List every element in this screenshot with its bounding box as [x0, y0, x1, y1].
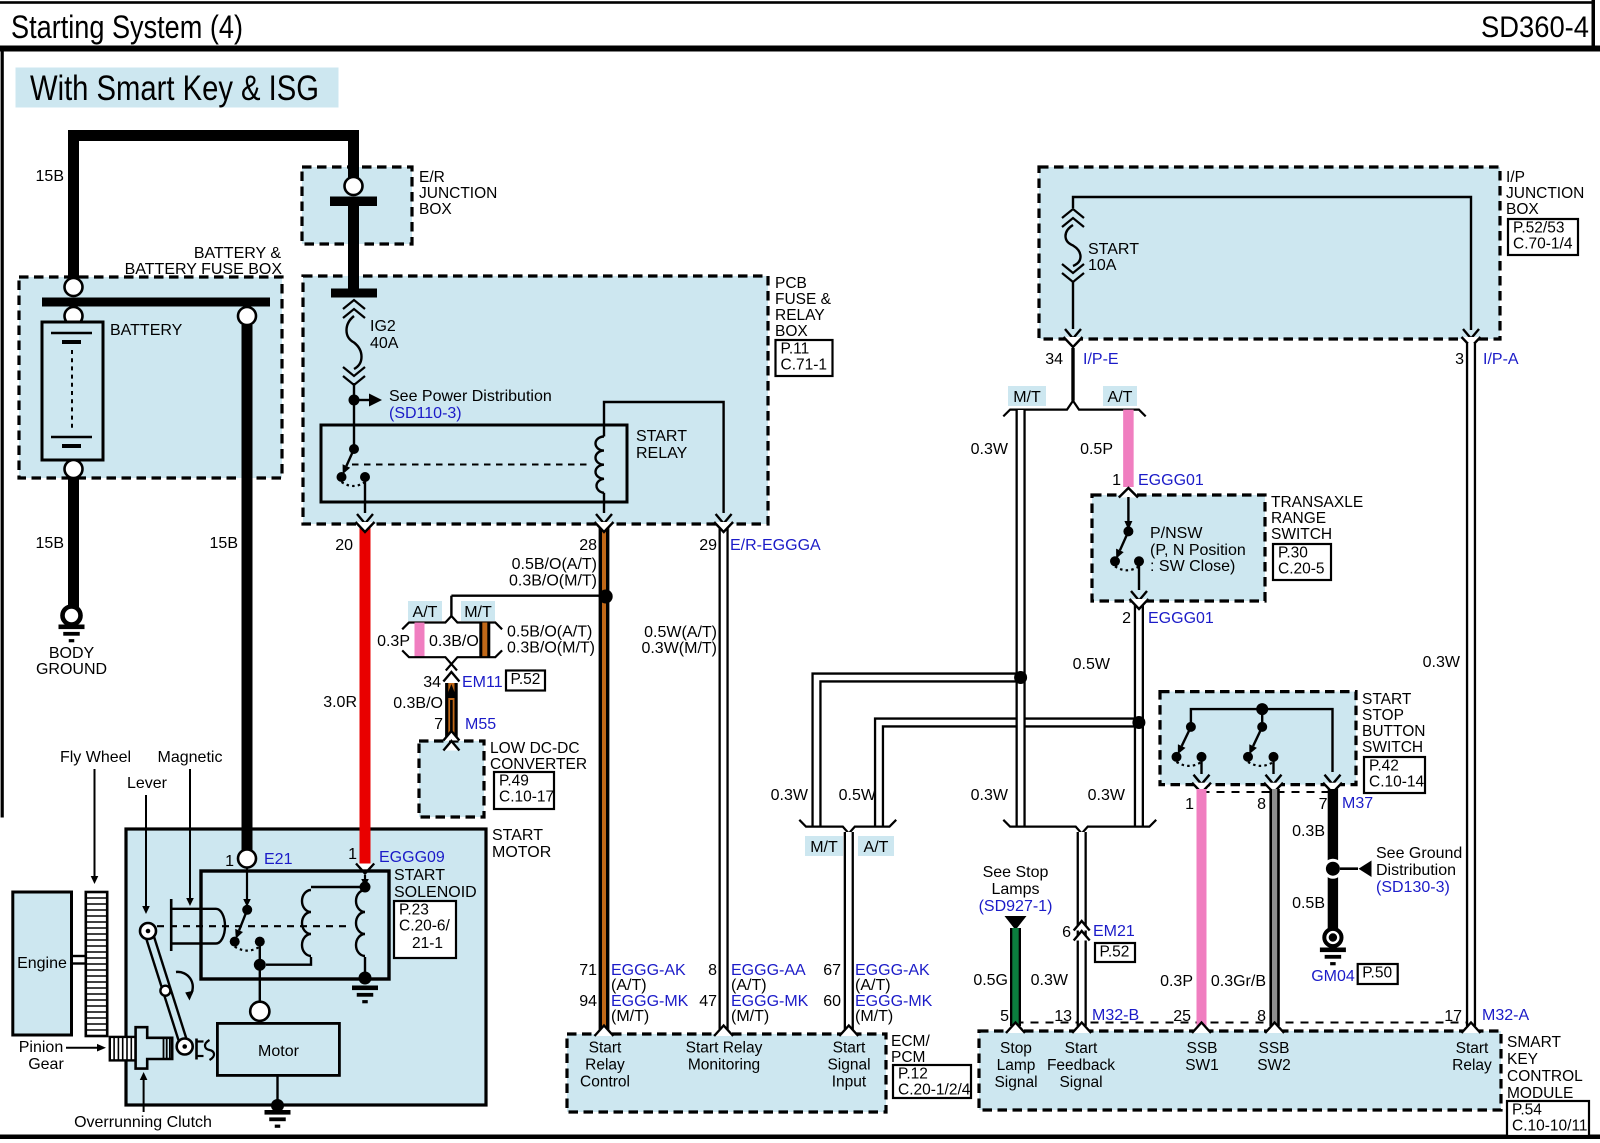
I/P junction box	[1039, 167, 1500, 339]
svg-text:P.42: P.42	[1369, 758, 1399, 775]
title underline	[0, 46, 1600, 52]
svg-text:Signal: Signal	[994, 1074, 1037, 1091]
svg-text:28: 28	[579, 537, 597, 554]
wire 0.3W start feedback to smart key	[1077, 832, 1087, 1026]
svg-text:3: 3	[1455, 351, 1464, 368]
svg-text:E/R-EGGGA: E/R-EGGGA	[730, 537, 821, 554]
svg-text:LOW DC-DC: LOW DC-DC	[490, 740, 580, 757]
svg-text:C.20-1/2/4: C.20-1/2/4	[898, 1082, 971, 1099]
svg-text:0.3W: 0.3W	[1088, 787, 1126, 804]
svg-text:1: 1	[1185, 796, 1194, 813]
svg-text:P.54: P.54	[1512, 1102, 1542, 1119]
wire 0.3B/O EM11 to M55	[445, 683, 458, 737]
svg-text:29: 29	[699, 537, 717, 554]
transaxle switch output	[1138, 561, 1140, 590]
svg-text:START: START	[1362, 691, 1412, 708]
SSB switch 2	[1257, 722, 1267, 732]
svg-text:SWITCH: SWITCH	[1271, 526, 1332, 543]
SSB internal bus wire	[1191, 709, 1333, 772]
svg-text:C.71-1: C.71-1	[781, 357, 828, 374]
start stop button switch box	[1160, 692, 1356, 785]
svg-text:(M/T): (M/T)	[611, 1008, 649, 1025]
svg-text:RELAY: RELAY	[636, 445, 688, 462]
svg-text:BOX: BOX	[775, 323, 808, 340]
connector EM11	[443, 672, 459, 682]
battery fuse box right connector	[238, 307, 256, 325]
solenoid pull-in coil	[302, 890, 311, 956]
svg-text:C.70-1/4: C.70-1/4	[1513, 236, 1573, 253]
svg-text:A/T: A/T	[864, 839, 889, 856]
svg-text:M/T: M/T	[810, 839, 838, 856]
start motor box	[126, 829, 486, 1105]
svg-text:1: 1	[348, 846, 357, 863]
svg-text:EM11: EM11	[462, 674, 503, 691]
svg-text:0.3Gr/B: 0.3Gr/B	[1211, 973, 1266, 990]
page top border line	[0, 1, 1594, 4]
wire 15B battery to body ground	[68, 478, 79, 607]
body ground G	[63, 607, 81, 625]
svg-text:P.12: P.12	[898, 1066, 928, 1083]
svg-text:0.5G: 0.5G	[973, 972, 1008, 989]
solenoid plunger dashed line	[157, 925, 352, 927]
svg-text:(P, N Position: (P, N Position	[1150, 542, 1246, 559]
svg-text:P/NSW: P/NSW	[1150, 525, 1203, 542]
coil ground wire	[364, 957, 366, 973]
svg-text:RELAY: RELAY	[775, 307, 825, 324]
svg-text:C.10-17: C.10-17	[499, 789, 554, 806]
svg-text:P.50: P.50	[1362, 965, 1392, 982]
svg-text:0.3B/O: 0.3B/O	[429, 633, 479, 650]
label A/T	[408, 601, 442, 621]
svg-text:0.5B/O(A/T): 0.5B/O(A/T)	[512, 556, 597, 573]
svg-text:M37: M37	[1342, 795, 1373, 812]
svg-text:CONVERTER: CONVERTER	[490, 756, 587, 773]
pinion gear	[110, 1037, 136, 1061]
battery B1	[42, 322, 103, 460]
svg-text:0.5B/O(A/T): 0.5B/O(A/T)	[507, 624, 592, 641]
svg-text:(SD927-1): (SD927-1)	[979, 898, 1053, 915]
svg-text:Signal: Signal	[827, 1057, 870, 1074]
svg-text:Start Relay: Start Relay	[686, 1040, 763, 1057]
svg-text:A/T: A/T	[1108, 389, 1133, 406]
start relay coil	[596, 437, 605, 493]
solenoid switch output node	[259, 942, 261, 965]
svg-text:E21: E21	[264, 851, 293, 868]
svg-text:GM04: GM04	[1311, 968, 1355, 985]
lever	[152, 930, 189, 1046]
svg-text:0.3P: 0.3P	[1160, 973, 1193, 990]
SSB switch1 output	[1200, 757, 1202, 774]
svg-text:SD360-4: SD360-4	[1481, 11, 1589, 44]
svg-text:Magnetic: Magnetic	[158, 749, 223, 766]
svg-text:PCM: PCM	[891, 1049, 925, 1066]
svg-text:Relay: Relay	[1452, 1057, 1492, 1074]
svg-text:0.3W: 0.3W	[1423, 654, 1461, 671]
svg-text:5: 5	[1000, 1008, 1009, 1025]
lever to motor linkage	[195, 1039, 198, 1060]
svg-text:0.3B/O(M/T): 0.3B/O(M/T)	[509, 573, 597, 590]
wire 0.3Gr/B SSB SW2	[1269, 789, 1279, 1026]
svg-text:71: 71	[579, 962, 597, 979]
svg-text:SSB: SSB	[1258, 1040, 1289, 1057]
svg-text:(M/T): (M/T)	[855, 1008, 893, 1025]
engine	[13, 892, 72, 1035]
SSB ground output pin7	[1325, 775, 1341, 785]
label M/T	[461, 601, 495, 621]
svg-text:(M/T): (M/T)	[731, 1008, 769, 1025]
svg-text:START: START	[636, 428, 687, 445]
wire 15B battery to E/R junction box	[74, 136, 354, 283]
start relay switch	[349, 444, 359, 454]
svg-text:Start: Start	[1456, 1040, 1489, 1057]
svg-text:Lamps: Lamps	[991, 881, 1039, 898]
svg-text:0.3W: 0.3W	[971, 787, 1009, 804]
svg-text:EM21: EM21	[1093, 923, 1135, 940]
svg-text:P.52: P.52	[511, 671, 541, 688]
svg-text:Fly Wheel: Fly Wheel	[60, 749, 131, 766]
svg-text:Pinion: Pinion	[19, 1039, 63, 1056]
svg-text:Gear: Gear	[28, 1056, 64, 1073]
svg-text:25: 25	[1173, 1008, 1191, 1025]
EM11 merge bracket	[402, 650, 457, 670]
svg-text:0.3W: 0.3W	[971, 441, 1009, 458]
svg-text:EGGG09: EGGG09	[379, 849, 445, 866]
svg-text:6: 6	[1062, 924, 1071, 941]
E/R junction bus bar	[330, 197, 377, 207]
svg-text:KEY: KEY	[1507, 1051, 1538, 1068]
wire 0.3P SSB SW1	[1197, 789, 1207, 1026]
merge M/T A/T start signal	[799, 820, 849, 834]
I/P junction internal wire	[1073, 197, 1471, 330]
svg-text:See Stop: See Stop	[983, 864, 1049, 881]
svg-text:Monitoring: Monitoring	[688, 1057, 760, 1074]
svg-text:Relay: Relay	[585, 1057, 625, 1074]
wire 0.5W transaxle to feedback merge	[1134, 603, 1144, 827]
svg-text:0.5W: 0.5W	[839, 787, 877, 804]
engine shaft	[72, 955, 86, 957]
svg-text:START: START	[394, 867, 445, 884]
ground GM04	[1324, 929, 1341, 946]
wire 0.3W junction branch to M/T merge	[817, 678, 1021, 827]
wire I/P-E	[1071, 348, 1074, 401]
svg-text:P.30: P.30	[1278, 545, 1308, 562]
connector M37 dashed line	[1202, 791, 1334, 793]
wire 0.3W I/P-E M/T branch	[1015, 410, 1025, 827]
motor M	[259, 970, 261, 1002]
node EM11 branch junction	[451, 595, 601, 597]
svg-text:0.3B/O(M/T): 0.3B/O(M/T)	[507, 640, 595, 657]
svg-text:SSB: SSB	[1186, 1040, 1217, 1057]
node power distribution junction	[349, 395, 360, 406]
smart key entries	[1006, 1023, 1025, 1034]
svg-text:Engine: Engine	[17, 955, 67, 972]
svg-text:0.5B: 0.5B	[1292, 895, 1325, 912]
PCB bus bar	[331, 289, 377, 298]
ECM entry start signal input	[839, 1026, 858, 1037]
svg-text:10A: 10A	[1088, 257, 1117, 274]
flywheel	[86, 892, 107, 1036]
fuse START 10A	[1062, 209, 1084, 218]
svg-text:Motor: Motor	[258, 1043, 300, 1060]
battery bus bar	[42, 298, 270, 307]
svg-text:94: 94	[579, 993, 597, 1010]
svg-text:: SW Close): : SW Close)	[1150, 558, 1235, 575]
page right title border	[1592, 0, 1596, 50]
svg-text:M32-B: M32-B	[1092, 1007, 1139, 1024]
SSB switch 1	[1186, 722, 1196, 732]
battery positive connector	[65, 278, 83, 296]
wire 0.3W I/P-A to smart key	[1466, 343, 1476, 1026]
svg-text:0.3W: 0.3W	[1031, 972, 1069, 989]
wire start relay switch output pin 20	[364, 477, 366, 513]
svg-text:Distribution: Distribution	[1376, 862, 1456, 879]
PCB fuse and relay box	[303, 276, 768, 524]
svg-text:E/R: E/R	[419, 169, 445, 186]
svg-text:15B: 15B	[36, 168, 64, 185]
svg-text:SMART: SMART	[1507, 1034, 1562, 1051]
lever motion arrow	[176, 972, 193, 994]
svg-text:(A/T): (A/T)	[611, 977, 647, 994]
wire start relay coil to E/R-EGGGA	[604, 402, 724, 513]
svg-text:RANGE: RANGE	[1271, 510, 1326, 527]
wire 0.3B 0.5B to ground GM04	[1328, 789, 1338, 929]
svg-text:SW2: SW2	[1257, 1057, 1291, 1074]
svg-text:(A/T): (A/T)	[855, 977, 891, 994]
svg-text:P.49: P.49	[499, 773, 529, 790]
svg-text:Start: Start	[1065, 1040, 1098, 1057]
svg-text:7: 7	[434, 716, 443, 733]
svg-text:ECM/: ECM/	[891, 1033, 930, 1050]
merge feedback wires	[1003, 820, 1081, 834]
svg-text:(SD130-3): (SD130-3)	[1376, 879, 1450, 896]
motor ground wire	[276, 1076, 278, 1102]
svg-text:21-1: 21-1	[412, 935, 443, 952]
svg-text:47: 47	[699, 993, 717, 1010]
svg-text:Lamp: Lamp	[997, 1057, 1036, 1074]
svg-text:BATTERY &: BATTERY &	[194, 245, 281, 262]
svg-text:M32-A: M32-A	[1482, 1007, 1529, 1024]
solenoid hold coil	[356, 890, 365, 956]
svg-text:13: 13	[1054, 1008, 1072, 1025]
svg-text:1: 1	[1112, 472, 1121, 489]
wire 3.0R start relay to start motor	[360, 527, 371, 869]
svg-text:START: START	[1088, 241, 1139, 258]
svg-text:Feedback: Feedback	[1047, 1057, 1115, 1074]
svg-text:EGGG01: EGGG01	[1148, 610, 1214, 627]
svg-text:0.3W(M/T): 0.3W(M/T)	[641, 640, 717, 657]
start relay linkage dashed line	[352, 464, 592, 466]
svg-text:GROUND: GROUND	[36, 661, 107, 678]
svg-text:20: 20	[335, 537, 353, 554]
svg-text:I/P: I/P	[1506, 169, 1525, 186]
svg-text:0.5W(A/T): 0.5W(A/T)	[644, 624, 717, 641]
svg-text:C.10-10/11: C.10-10/11	[1512, 1118, 1588, 1135]
svg-text:0.3W: 0.3W	[771, 787, 809, 804]
wire E/R junction to PCB box	[348, 206, 359, 292]
E/R junction connector	[345, 177, 363, 195]
page left border	[1, 46, 4, 818]
svg-text:Stop: Stop	[1000, 1040, 1032, 1057]
svg-text:M/T: M/T	[464, 604, 492, 621]
wire start signal input to ECM	[844, 832, 854, 1030]
svg-text:MOTOR: MOTOR	[492, 844, 551, 861]
exit pin 29	[716, 514, 732, 524]
svg-text:3.0R: 3.0R	[323, 694, 357, 711]
transaxle range switch box	[1092, 495, 1265, 601]
svg-text:2: 2	[1122, 610, 1131, 627]
smart key control module box	[979, 1031, 1501, 1110]
svg-text:8: 8	[1257, 1008, 1266, 1025]
svg-text:34: 34	[1045, 351, 1063, 368]
battery and battery fuse box	[19, 277, 282, 478]
fuse IG2 40A	[343, 300, 365, 309]
label M/T	[1008, 386, 1046, 406]
overrunning clutch	[136, 1027, 173, 1068]
svg-text:8: 8	[708, 962, 717, 979]
E/R junction box	[302, 167, 412, 244]
svg-text:C.20-5: C.20-5	[1278, 561, 1325, 578]
wire 0.3B/O M/T branch	[479, 623, 490, 658]
svg-text:1: 1	[225, 853, 234, 870]
solenoid switch	[242, 905, 252, 915]
svg-text:0.3B: 0.3B	[1292, 823, 1325, 840]
svg-text:Signal: Signal	[1059, 1074, 1102, 1091]
svg-text:BODY: BODY	[49, 645, 95, 662]
see power distribution reference	[354, 399, 369, 401]
svg-text:Overrunning Clutch: Overrunning Clutch	[74, 1114, 212, 1131]
svg-text:M55: M55	[465, 716, 496, 733]
exit pin 3	[1463, 329, 1479, 339]
svg-text:C.20-6/: C.20-6/	[399, 918, 451, 935]
svg-text:0.3P: 0.3P	[377, 633, 410, 650]
solenoid feed node	[360, 882, 371, 893]
see ground distribution reference	[1340, 867, 1358, 870]
svg-text:Lever: Lever	[127, 775, 168, 792]
transaxle entry connector pin 1	[1119, 488, 1138, 498]
exit pin 20	[357, 514, 373, 524]
connector M32 dashed line	[1016, 1022, 1467, 1024]
svg-text:MODULE: MODULE	[1507, 1085, 1573, 1102]
wire 0.5B/O start relay control	[599, 527, 610, 1030]
svg-text:SOLENOID: SOLENOID	[394, 884, 477, 901]
svg-text:0.3B/O: 0.3B/O	[393, 695, 443, 712]
subtitle With Smart Key & ISG	[16, 68, 339, 108]
svg-text:BATTERY: BATTERY	[110, 322, 183, 339]
solenoid ground	[352, 986, 378, 991]
svg-text:M/T: M/T	[1013, 389, 1041, 406]
svg-text:CONTROL: CONTROL	[1507, 1068, 1583, 1085]
page bottom border	[0, 1135, 1600, 1140]
connector EM21	[1074, 921, 1090, 931]
svg-text:67: 67	[823, 962, 841, 979]
wire IG2 to start relay	[353, 383, 355, 449]
svg-text:(SD110-3): (SD110-3)	[389, 405, 462, 422]
svg-text:JUNCTION: JUNCTION	[419, 185, 497, 202]
connector E21	[238, 850, 256, 868]
start relay box	[321, 425, 627, 502]
EM11 A/T-M/T split bracket	[402, 616, 451, 629]
label A/T	[1103, 386, 1137, 406]
wire EM11 drop	[450, 596, 452, 616]
node ground distribution junction	[1323, 859, 1343, 879]
wire 0.5W transaxle branch to A/T merge	[879, 723, 1139, 827]
svg-text:JUNCTION: JUNCTION	[1506, 185, 1584, 202]
svg-text:I/P-E: I/P-E	[1083, 351, 1119, 368]
I/P-E M/T A/T split bracket	[1003, 401, 1073, 417]
svg-text:Start: Start	[589, 1040, 622, 1057]
start solenoid box	[201, 871, 389, 979]
svg-text:BOX: BOX	[1506, 201, 1539, 218]
svg-text:0.5W: 0.5W	[1073, 656, 1111, 673]
svg-text:EGGG01: EGGG01	[1138, 472, 1204, 489]
coil to motor terminal wire	[266, 957, 311, 965]
wire fuse to pin 34	[1072, 282, 1074, 329]
svg-text:See Ground: See Ground	[1376, 845, 1462, 862]
node junction I/P-E branch	[1014, 671, 1027, 684]
svg-text:15B: 15B	[36, 535, 64, 552]
motor ground	[265, 1110, 291, 1115]
svg-text:SW1: SW1	[1185, 1057, 1219, 1074]
svg-text:P.52/53: P.52/53	[1513, 220, 1564, 237]
svg-text:Input: Input	[832, 1074, 867, 1091]
svg-text:BUTTON: BUTTON	[1362, 723, 1425, 740]
low dc-dc converter box	[419, 741, 484, 817]
exit pin 34	[1065, 329, 1081, 339]
wire 0.3P A/T branch	[415, 623, 425, 658]
svg-text:P.52: P.52	[1100, 944, 1130, 961]
svg-text:(A/T): (A/T)	[731, 977, 767, 994]
node junction transaxle branch	[1132, 716, 1145, 729]
svg-text:C.10-14: C.10-14	[1369, 774, 1425, 791]
svg-text:SWITCH: SWITCH	[1362, 739, 1423, 756]
svg-text:IG2: IG2	[370, 318, 396, 335]
exit pin 28	[596, 514, 612, 524]
svg-text:60: 60	[823, 993, 841, 1010]
wire 15B battery fuse box to start motor	[242, 325, 253, 850]
svg-text:P.23: P.23	[399, 902, 429, 919]
ECM entry start relay monitoring	[714, 1026, 733, 1037]
node SSB bus junction	[1256, 703, 1268, 715]
connector M55	[443, 731, 459, 741]
svg-text:See Power Distribution: See Power Distribution	[389, 388, 552, 405]
wire start relay coil output pin 28	[603, 493, 605, 513]
svg-text:START: START	[492, 827, 543, 844]
svg-text:BOX: BOX	[419, 201, 452, 218]
svg-text:PCB: PCB	[775, 275, 807, 292]
svg-text:0.5P: 0.5P	[1080, 441, 1113, 458]
svg-text:FUSE &: FUSE &	[775, 291, 832, 308]
magnetic armature bracket	[170, 899, 173, 951]
wire 0.5P to transaxle	[1123, 410, 1134, 487]
SSB switch2 output	[1272, 757, 1274, 774]
svg-text:40A: 40A	[370, 335, 399, 352]
svg-text:Control: Control	[580, 1074, 630, 1091]
ECM/PCM box	[567, 1034, 886, 1112]
svg-text:Starting System (4): Starting System (4)	[11, 9, 243, 45]
svg-text:15B: 15B	[210, 535, 238, 552]
svg-text:I/P-A: I/P-A	[1483, 351, 1519, 368]
svg-text:TRANSAXLE: TRANSAXLE	[1271, 494, 1363, 511]
svg-text:7: 7	[1319, 796, 1328, 813]
svg-text:BATTERY FUSE BOX: BATTERY FUSE BOX	[125, 261, 283, 278]
transaxle switch P/NSW	[1127, 497, 1129, 523]
wire 0.5G stop lamp signal	[1010, 928, 1021, 1026]
svg-text:8: 8	[1257, 796, 1266, 813]
svg-text:P.11: P.11	[781, 341, 810, 358]
svg-text:A/T: A/T	[413, 604, 438, 621]
svg-text:With Smart Key & ISG: With Smart Key & ISG	[30, 69, 319, 108]
svg-text:Start: Start	[833, 1040, 866, 1057]
